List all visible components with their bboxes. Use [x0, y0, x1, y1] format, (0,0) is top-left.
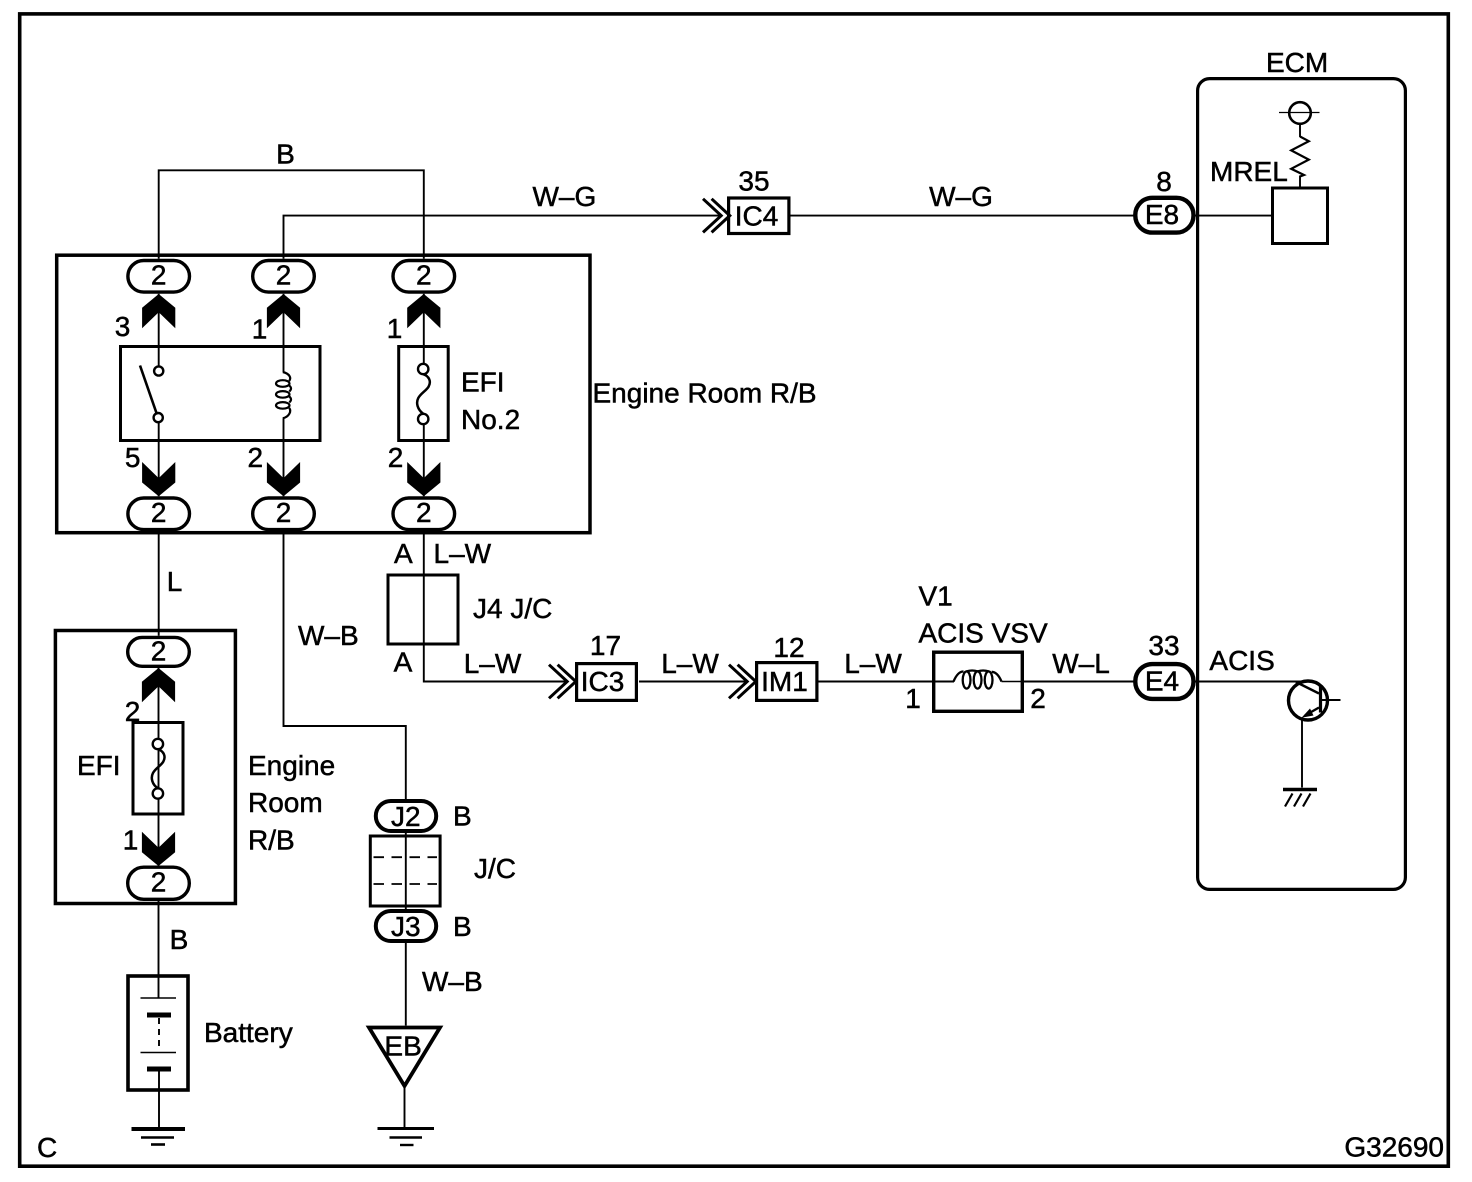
svg-text:W–L: W–L	[1052, 648, 1110, 679]
svg-text:2: 2	[416, 259, 432, 290]
svg-text:Engine: Engine	[248, 750, 335, 781]
svg-text:2: 2	[1030, 683, 1046, 714]
svg-text:33: 33	[1148, 630, 1179, 661]
svg-text:C: C	[37, 1132, 57, 1163]
svg-text:J2: J2	[391, 801, 421, 832]
svg-text:2: 2	[151, 497, 167, 528]
svg-text:2: 2	[151, 867, 167, 898]
svg-text:1: 1	[252, 314, 268, 345]
svg-text:ACIS VSV: ACIS VSV	[919, 618, 1048, 649]
svg-text:L–W: L–W	[464, 648, 522, 679]
svg-text:E4: E4	[1145, 665, 1179, 696]
svg-text:ACIS: ACIS	[1209, 645, 1274, 676]
svg-text:L–W: L–W	[661, 648, 719, 679]
svg-text:W–B: W–B	[422, 966, 483, 997]
svg-text:1: 1	[123, 825, 139, 856]
svg-text:L–W: L–W	[434, 538, 492, 569]
svg-text:L: L	[167, 566, 183, 597]
svg-text:5: 5	[125, 442, 141, 473]
svg-text:V1: V1	[919, 581, 953, 612]
svg-text:J4 J/C: J4 J/C	[473, 593, 552, 624]
svg-text:1: 1	[905, 683, 921, 714]
svg-text:No.2: No.2	[461, 404, 520, 435]
svg-text:MREL: MREL	[1210, 156, 1288, 187]
svg-text:W–G: W–G	[929, 181, 993, 212]
svg-text:35: 35	[738, 166, 769, 197]
svg-text:EFI: EFI	[461, 367, 505, 398]
svg-text:2: 2	[125, 696, 141, 727]
svg-text:EB: EB	[384, 1031, 421, 1062]
svg-text:R/B: R/B	[248, 825, 295, 856]
svg-text:2: 2	[151, 259, 167, 290]
svg-text:EFI: EFI	[77, 750, 121, 781]
svg-text:2: 2	[388, 442, 404, 473]
svg-text:2: 2	[276, 259, 292, 290]
svg-text:J3: J3	[391, 911, 421, 942]
svg-text:8: 8	[1156, 166, 1172, 197]
svg-text:B: B	[276, 139, 295, 170]
svg-text:A: A	[394, 647, 413, 678]
svg-text:17: 17	[590, 630, 621, 661]
svg-text:Room: Room	[248, 787, 323, 818]
svg-text:IM1: IM1	[761, 666, 808, 697]
svg-text:3: 3	[115, 311, 131, 342]
svg-text:2: 2	[276, 497, 292, 528]
svg-text:J/C: J/C	[474, 853, 516, 884]
svg-text:G32690: G32690	[1344, 1132, 1444, 1163]
svg-text:E8: E8	[1145, 199, 1179, 230]
svg-text:1: 1	[387, 313, 403, 344]
svg-text:Engine Room R/B: Engine Room R/B	[593, 378, 817, 409]
svg-text:B: B	[453, 911, 472, 942]
svg-text:Battery: Battery	[204, 1017, 293, 1048]
svg-text:A: A	[394, 538, 413, 569]
svg-text:12: 12	[773, 632, 804, 663]
svg-text:IC3: IC3	[581, 666, 625, 697]
svg-text:W–B: W–B	[298, 620, 359, 651]
svg-text:W–G: W–G	[533, 181, 597, 212]
svg-text:2: 2	[248, 442, 264, 473]
svg-text:ECM: ECM	[1266, 47, 1328, 78]
svg-text:IC4: IC4	[735, 201, 779, 232]
svg-text:L–W: L–W	[844, 648, 902, 679]
svg-text:2: 2	[151, 636, 167, 667]
svg-text:2: 2	[416, 497, 432, 528]
svg-text:B: B	[170, 924, 189, 955]
svg-text:B: B	[453, 801, 472, 832]
